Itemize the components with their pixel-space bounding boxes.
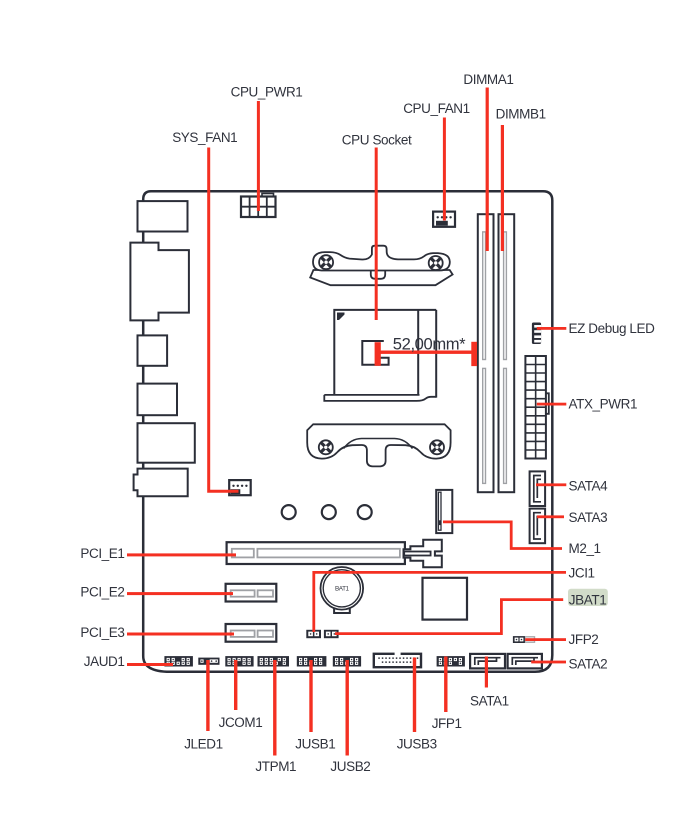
dimm slot DIMMA1 <box>478 214 494 492</box>
wire JUSB1 <box>309 660 312 732</box>
header JUSB2 <box>333 656 361 666</box>
connector CPU_PWR1 <box>241 194 276 218</box>
svg-text:JAUD1: JAUD1 <box>84 654 125 669</box>
screw bottom-right <box>430 440 444 454</box>
cpu bracket top plate <box>310 270 452 285</box>
wire PCI_E3 <box>127 633 234 636</box>
slot M2_1 <box>436 490 452 533</box>
screw top-left <box>319 255 333 269</box>
slot PCI_E2 <box>226 584 277 602</box>
connector SYS_FAN1 <box>229 480 251 495</box>
wire ATX_PWR1 <box>537 403 567 406</box>
wire SATA3 <box>537 515 564 518</box>
wire DIMMB1 <box>501 125 504 251</box>
header JLED1 <box>198 658 219 665</box>
svg-text:JUSB3: JUSB3 <box>397 737 437 752</box>
wire PCI_E2 <box>127 592 233 595</box>
battery BAT1 <box>321 567 364 613</box>
wire JBAT1 <box>335 600 563 634</box>
header JAUD1 <box>164 656 193 666</box>
svg-text:SYS_FAN1: SYS_FAN1 <box>172 130 237 145</box>
svg-text:JFP2: JFP2 <box>569 632 599 647</box>
mounting hole 3 <box>358 505 372 519</box>
wire JTPM1 <box>273 660 276 756</box>
wire JUSB3 <box>413 658 416 733</box>
svg-text:CPU_PWR1: CPU_PWR1 <box>231 85 303 100</box>
header JFP2 <box>513 636 535 643</box>
mounting hole 1 <box>282 505 296 519</box>
slot PCI_E1 <box>227 542 405 564</box>
cpu bracket top wings <box>313 246 450 271</box>
dimension 52,00mm* <box>375 334 477 366</box>
svg-text:PCI_E2: PCI_E2 <box>80 585 124 600</box>
header JBAT1 <box>324 630 339 638</box>
header JCI1 <box>306 630 321 638</box>
io port 6 <box>134 469 188 497</box>
svg-text:BAT1: BAT1 <box>335 586 350 593</box>
wire SATA2 <box>531 661 566 664</box>
svg-text:JUSB2: JUSB2 <box>330 759 370 774</box>
wire M2_1 <box>443 522 562 549</box>
io port 5 <box>138 423 195 463</box>
dimm slot DIMMB1 <box>499 214 515 492</box>
wire CPU_FAN1 <box>443 118 446 221</box>
wire JAUD1 <box>127 663 173 666</box>
svg-text:CPU Socket: CPU Socket <box>342 133 412 148</box>
wire SYS_FAN1 <box>209 148 239 492</box>
wire JFP1 <box>444 657 447 713</box>
svg-text:SATA2: SATA2 <box>569 657 608 672</box>
chipset block <box>423 578 468 620</box>
svg-text:JUSB1: JUSB1 <box>295 737 335 752</box>
io port 2 <box>130 243 189 321</box>
label JBAT1 highlight <box>568 589 608 606</box>
screw bottom-left <box>319 440 333 454</box>
io port 4 <box>138 384 178 416</box>
connector SATA4 <box>530 471 546 506</box>
slot PCI_E3 <box>226 624 277 642</box>
svg-text:JLED1: JLED1 <box>184 737 223 752</box>
board outline <box>143 191 552 672</box>
wire EZ Debug LED <box>537 327 567 330</box>
svg-text:SATA1: SATA1 <box>470 694 509 709</box>
wire JUSB2 <box>346 660 349 756</box>
screw top-right <box>429 256 443 270</box>
svg-text:PCI_E1: PCI_E1 <box>80 546 124 561</box>
wire JCOM1 <box>234 660 237 710</box>
cpu bracket bottom <box>307 424 450 466</box>
svg-text:SATA3: SATA3 <box>569 510 608 525</box>
io port 3 <box>138 335 168 365</box>
svg-text:DIMMA1: DIMMA1 <box>463 72 513 87</box>
svg-text:JBAT1: JBAT1 <box>569 592 607 607</box>
svg-text:52,00mm*: 52,00mm* <box>393 334 466 353</box>
svg-text:JTPM1: JTPM1 <box>255 759 296 774</box>
wire SATA4 <box>536 483 566 486</box>
header JTPM1 <box>258 656 290 666</box>
EZ Debug LED block <box>532 323 541 345</box>
svg-text:ATX_PWR1: ATX_PWR1 <box>569 397 638 412</box>
cpu socket center square <box>362 341 388 365</box>
cpu bracket top tongue <box>371 270 385 279</box>
header JCOM1 <box>225 656 253 666</box>
svg-text:DIMMB1: DIMMB1 <box>496 107 546 122</box>
svg-text:EZ Debug LED: EZ Debug LED <box>569 321 656 336</box>
svg-text:PCI_E3: PCI_E3 <box>80 625 124 640</box>
connector ATX_PWR1 <box>525 356 548 459</box>
connector CPU_FAN1 <box>433 212 455 227</box>
header JUSB1 <box>297 656 327 666</box>
wire PCI_E1 <box>127 553 236 556</box>
io port 1 <box>138 201 188 231</box>
wire SATA1 <box>485 657 488 688</box>
wire CPU Socket <box>375 148 378 321</box>
svg-text:JFP1: JFP1 <box>432 716 462 731</box>
connector SATA3 <box>530 509 546 544</box>
svg-text:CPU_FAN1: CPU_FAN1 <box>403 101 470 116</box>
wire JLED1 <box>206 660 209 731</box>
cpu socket square <box>324 310 436 401</box>
wire DIMMA1 <box>486 88 489 252</box>
wire JCI1 <box>314 572 566 632</box>
connector SATA2 <box>508 654 542 669</box>
svg-text:JCOM1: JCOM1 <box>219 715 263 730</box>
wire CPU_PWR1 <box>257 101 260 211</box>
svg-text:SATA4: SATA4 <box>569 479 609 494</box>
header JUSB3 <box>374 652 421 668</box>
wire JFP2 <box>525 638 566 641</box>
mounting hole 2 <box>322 505 336 519</box>
connector SATA1 <box>470 654 505 669</box>
header JFP1 <box>437 656 465 666</box>
pcie latch <box>404 540 442 567</box>
svg-text:M2_1: M2_1 <box>569 541 601 556</box>
svg-text:JCI1: JCI1 <box>569 566 595 581</box>
